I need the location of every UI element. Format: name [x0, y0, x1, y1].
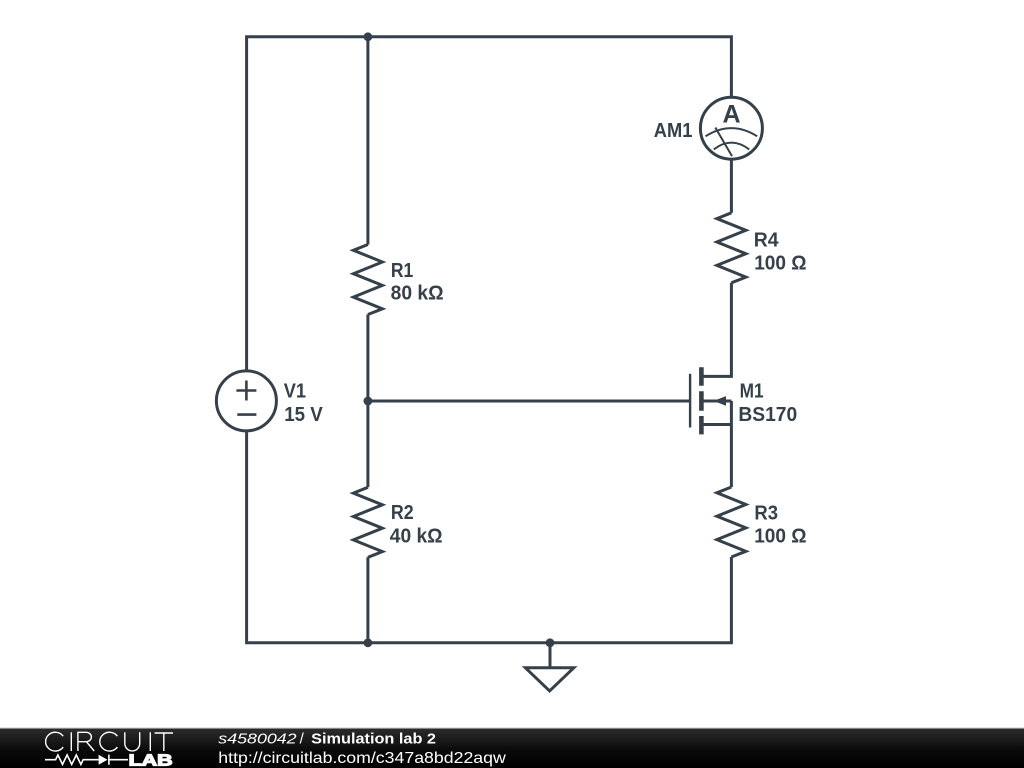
wire gate net [368, 400, 690, 403]
logo diode triangle [99, 755, 108, 765]
svg-text:100 Ω: 100 Ω [754, 525, 806, 547]
wire source horizontal [704, 423, 732, 426]
svg-text:M1: M1 [740, 381, 764, 403]
svg-text:80 kΩ: 80 kΩ [391, 283, 444, 305]
wire source/body vertical [730, 401, 733, 487]
transistor M1 [690, 367, 701, 434]
svg-text:Simulation lab 2: Simulation lab 2 [311, 731, 436, 748]
wire R2 bottom lead [366, 557, 369, 643]
wire R4 lead to drain corner + drain horizontal [704, 283, 732, 377]
svg-text:BS170: BS170 [738, 404, 797, 426]
svg-text:R3: R3 [754, 502, 778, 524]
ground [525, 668, 573, 691]
resistor R4 [717, 213, 746, 283]
AM1 scale arc outer [706, 128, 758, 136]
resistor R1 [353, 245, 382, 315]
M1 gate line [689, 374, 691, 428]
junction node R2 bottom [364, 638, 373, 647]
M1 arrow [714, 396, 726, 406]
junction node ground [546, 638, 555, 647]
resistor R3 [717, 487, 746, 557]
wire body horizontal [704, 400, 732, 403]
svg-text:R1: R1 [391, 260, 413, 282]
wire R1 bottom lead [366, 315, 369, 402]
svg-text:V1: V1 [284, 381, 306, 403]
AM1 scale arc inner [714, 143, 749, 150]
svg-text:AM1: AM1 [654, 120, 693, 142]
wire ammeter to R4 [730, 159, 733, 213]
logo resistor-diode glyph [45, 755, 128, 765]
svg-text:A: A [722, 100, 740, 128]
ammeter AM1 [700, 97, 762, 159]
wire R2 top lead [366, 401, 369, 487]
logo CIRCUIT [46, 732, 173, 751]
svg-text:R2: R2 [391, 502, 414, 524]
svg-text:http://circuitlab.com/c347a8bd: http://circuitlab.com/c347a8bd22aqw [218, 750, 506, 767]
junction node gate [364, 397, 373, 406]
M1 channel bars [699, 367, 704, 434]
wire left branch lower + bottom rail + R3 bottom lead [247, 431, 732, 643]
wire ground stem [549, 643, 552, 668]
svg-text:15 V: 15 V [284, 404, 323, 426]
footer bar [0, 729, 1024, 768]
svg-text:LAB: LAB [129, 752, 173, 768]
junction node R1 top [364, 32, 373, 41]
wire left branch upper + top rail + right branch top [247, 37, 732, 371]
wire R1 top lead [366, 37, 369, 245]
svg-text:s4580042: s4580042 [218, 731, 297, 748]
ammeter internals [706, 128, 758, 157]
resistor R2 [353, 487, 382, 557]
svg-text:R4: R4 [754, 229, 780, 251]
voltage source V1 [216, 371, 276, 431]
svg-text:100 Ω: 100 Ω [754, 253, 806, 275]
svg-text:40 kΩ: 40 kΩ [390, 526, 443, 548]
AM1 needle [715, 128, 732, 157]
